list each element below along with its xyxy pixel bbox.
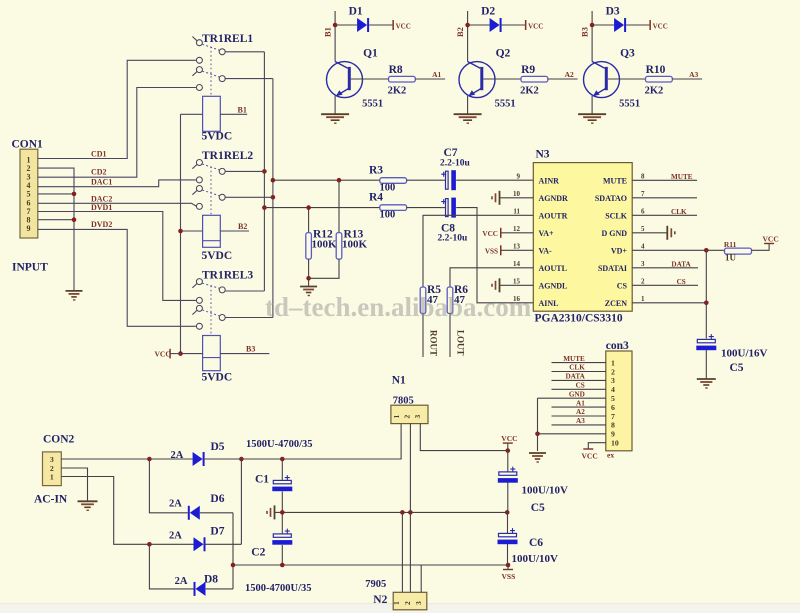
svg-text:DAC1: DAC1	[91, 177, 112, 186]
svg-text:TR1REL2: TR1REL2	[202, 150, 253, 162]
wire DATA net at con3 pin 3	[552, 373, 606, 381]
svg-text:SDATAI: SDATAI	[598, 264, 627, 273]
resistor R13 100K	[309, 180, 368, 278]
wire N2 pin1 riser	[401, 512, 403, 592]
svg-text:2A: 2A	[171, 450, 184, 461]
svg-text:A2: A2	[565, 70, 574, 79]
diode D5 2A	[171, 441, 225, 466]
svg-text:15: 15	[513, 277, 521, 285]
svg-text:B2: B2	[238, 222, 247, 231]
svg-text:CLK: CLK	[671, 208, 687, 216]
wire CS net at N3 pin 2	[632, 278, 698, 286]
ground under Q2	[454, 114, 482, 123]
wire AC2: CON2 pin1 to D7	[61, 477, 193, 547]
svg-text:100U/10V: 100U/10V	[512, 553, 559, 565]
svg-text:5VDC: 5VDC	[202, 250, 233, 262]
svg-text:1: 1	[392, 415, 401, 419]
svg-text:A3: A3	[576, 417, 585, 425]
connector CON2 AC-IN	[34, 434, 75, 506]
svg-text:3: 3	[611, 376, 615, 385]
svg-text:Q3: Q3	[620, 48, 635, 60]
regulator N2 7905	[365, 579, 427, 610]
wire N1 pin2 to ground rail and N2	[409, 424, 411, 593]
svg-text:3: 3	[50, 455, 54, 464]
wire TR1REL2 contact 1	[225, 170, 264, 172]
transistor Q3 5551	[584, 48, 641, 114]
svg-text:100: 100	[380, 209, 396, 220]
svg-text:11: 11	[513, 207, 520, 215]
svg-text:5551: 5551	[619, 99, 640, 110]
relay TR1REL2	[181, 150, 254, 262]
power VSS under C6	[502, 565, 516, 581]
wire N3 pin 11 AOUTR to R5	[423, 215, 533, 287]
wire minus bus vertical (D6/D8 anodes)	[231, 513, 236, 589]
wire A3 net at con3 pin 8	[552, 417, 606, 425]
svg-text:ex: ex	[607, 451, 614, 460]
resistor R11 1U	[706, 234, 778, 262]
svg-text:D5: D5	[211, 441, 225, 453]
svg-text:A1: A1	[576, 399, 585, 407]
svg-text:VCC: VCC	[482, 230, 498, 238]
wire CD1: CON1 pin1 to TR1REL1	[38, 60, 196, 158]
svg-text:VCC: VCC	[528, 22, 543, 30]
svg-text:B1: B1	[323, 27, 333, 37]
svg-text:6: 6	[641, 207, 645, 215]
svg-text:Q2: Q2	[496, 48, 511, 60]
node B2 vertical wire	[455, 11, 470, 62]
svg-text:9: 9	[611, 430, 615, 439]
wire VCC feed to relay coils	[178, 114, 183, 356]
ground rail with sideways ground	[267, 505, 510, 519]
svg-text:7: 7	[641, 190, 645, 198]
svg-text:10: 10	[513, 190, 521, 198]
resistor R5 47	[420, 284, 441, 357]
resistor R9 2K2	[483, 64, 577, 97]
svg-text:1: 1	[50, 472, 54, 481]
svg-text:CON2: CON2	[43, 434, 75, 446]
diode D6 2A	[169, 493, 233, 520]
transistor Q1 5551	[327, 48, 384, 114]
svg-text:D GND: D GND	[601, 229, 627, 238]
wire plus rail to N1 pin 1	[205, 424, 402, 462]
svg-text:C7: C7	[444, 147, 458, 159]
power VCC near C5	[501, 434, 517, 451]
svg-text:AOUTL: AOUTL	[539, 264, 567, 273]
capacitor C1	[255, 459, 292, 512]
svg-text:14: 14	[513, 260, 521, 268]
svg-text:AGNDR: AGNDR	[539, 194, 569, 203]
svg-text:MUTE: MUTE	[671, 173, 693, 181]
resistor R8 2K2	[351, 64, 445, 97]
svg-text:B3: B3	[246, 345, 255, 354]
capacitor C8 2.2-10u	[438, 198, 534, 303]
svg-text:5551: 5551	[495, 99, 516, 110]
wire CON1 pin5	[38, 192, 76, 197]
svg-text:PGA2310/CS3310: PGA2310/CS3310	[535, 313, 623, 325]
wire AC1: CON2 pin3 to D5	[61, 457, 192, 462]
svg-text:D2: D2	[481, 6, 495, 18]
ground at N3 pin 10 (AGNDR)	[492, 191, 533, 205]
svg-text:con3: con3	[606, 340, 629, 352]
wire minus rail	[233, 563, 510, 568]
svg-text:DATA: DATA	[671, 260, 691, 268]
svg-text:C2: C2	[251, 547, 265, 559]
wire DAC1: CON1 pin4 to TR1REL2	[38, 177, 196, 186]
svg-text:D3: D3	[606, 6, 620, 18]
svg-text:C1: C1	[255, 473, 269, 485]
wire at N3 pin 7 SDATAO	[632, 197, 697, 199]
resistor R12 100K	[306, 205, 337, 286]
svg-text:9: 9	[27, 224, 31, 233]
ground at N3 pin 15 (AGNDL)	[492, 278, 533, 292]
wire bus B vertical	[271, 79, 276, 318]
svg-text:CS: CS	[677, 278, 686, 286]
diode D7 2A	[169, 526, 241, 552]
svg-text:3: 3	[414, 601, 423, 605]
svg-text:1500-4700U/35: 1500-4700U/35	[245, 583, 312, 594]
wire GND net at con3 pin 5	[538, 390, 606, 398]
wire N2 pin3 to minus rail	[420, 565, 422, 592]
svg-text:7: 7	[611, 412, 615, 421]
svg-text:A2: A2	[576, 408, 585, 416]
svg-text:ROUT: ROUT	[429, 330, 439, 356]
svg-text:9: 9	[517, 172, 521, 180]
svg-text:2.2-10u: 2.2-10u	[438, 233, 469, 243]
svg-text:SCLK: SCLK	[605, 211, 628, 220]
svg-text:AINL: AINL	[539, 299, 559, 308]
svg-text:100K: 100K	[342, 239, 368, 251]
wire AC2 down to D8	[149, 544, 193, 589]
svg-text:13: 13	[513, 242, 521, 250]
svg-text:SDATAO: SDATAO	[595, 194, 627, 203]
wire CD2: CON1 pin3 to TR1REL1	[38, 88, 196, 178]
wire N3 pin 14 AOUTL to R6	[450, 268, 533, 287]
wire bus A vertical	[262, 52, 267, 291]
power VSS at N3 pin 13	[485, 245, 533, 255]
svg-text:12: 12	[513, 225, 521, 233]
svg-text:8: 8	[611, 421, 615, 430]
wire MUTE net at con3 pin 1	[552, 355, 606, 363]
svg-text:1: 1	[611, 358, 615, 367]
ground under Q1	[321, 114, 349, 123]
svg-text:CD2: CD2	[91, 168, 107, 177]
svg-text:2.2-10u: 2.2-10u	[440, 159, 471, 169]
connector CON1	[12, 139, 49, 274]
wire CON1 pin8	[38, 217, 76, 222]
capacitor C6 100U/10V	[498, 512, 559, 565]
wire TR1REL1 contact to bus A	[225, 51, 264, 53]
svg-text:2A: 2A	[169, 498, 182, 509]
wire CON1 pin2 to ground rail	[38, 168, 74, 290]
svg-text:2K2: 2K2	[520, 86, 539, 97]
svg-text:R4: R4	[369, 191, 383, 203]
svg-text:1500U-4700/35: 1500U-4700/35	[246, 439, 313, 450]
wire DVD2: CON1 pin9 to TR1REL3	[38, 220, 196, 326]
op-amp U: IC N3 PGA2310/CS3310	[533, 149, 632, 325]
capacitor C5 100U/10V	[498, 451, 568, 514]
svg-text:N2: N2	[373, 594, 387, 606]
svg-text:N3: N3	[536, 149, 550, 161]
wire VCC output of N1	[420, 424, 510, 453]
svg-text:2: 2	[641, 277, 645, 285]
svg-text:6: 6	[611, 403, 615, 412]
svg-text:4: 4	[611, 385, 615, 394]
svg-text:DVD1: DVD1	[91, 203, 112, 212]
svg-text:GND: GND	[569, 390, 585, 398]
power VCC (relay coils)	[155, 349, 181, 359]
svg-text:B1: B1	[238, 105, 247, 114]
svg-text:AGNDL: AGNDL	[539, 281, 568, 290]
svg-text:Q1: Q1	[363, 48, 378, 60]
svg-text:5551: 5551	[362, 99, 383, 110]
node B1 vertical wire	[323, 11, 338, 62]
connector con3	[606, 340, 632, 460]
svg-text:2: 2	[611, 367, 615, 376]
relay TR1REL1	[181, 33, 254, 143]
svg-text:R9: R9	[521, 64, 535, 76]
svg-text:VCC: VCC	[582, 451, 598, 460]
ground under R12/R13	[300, 287, 317, 296]
wire TR1REL2 contact 2	[225, 196, 273, 198]
svg-text:100U/10V: 100U/10V	[522, 485, 569, 497]
svg-text:2A: 2A	[175, 576, 188, 587]
svg-text:VCC: VCC	[396, 22, 411, 30]
wire CON2 pin2 to ground	[61, 468, 87, 501]
regulator N1 7805	[391, 375, 428, 424]
svg-text:R3: R3	[369, 165, 383, 177]
svg-text:TR1REL3: TR1REL3	[202, 269, 253, 281]
wire TR1REL1 contact to bus B	[225, 78, 273, 80]
svg-text:2K2: 2K2	[388, 86, 407, 97]
svg-text:CS: CS	[576, 382, 585, 390]
capacitor C7 2.2-10u	[440, 147, 533, 190]
wire DATA net at N3 pin 3	[632, 260, 698, 268]
svg-text:A3: A3	[689, 70, 698, 79]
svg-text:5VDC: 5VDC	[202, 371, 233, 383]
svg-text:VA+: VA+	[539, 229, 555, 238]
svg-text:D8: D8	[204, 574, 218, 586]
resistor R3 100	[273, 165, 441, 194]
resistor R10 2K2	[608, 64, 702, 97]
svg-text:B2: B2	[455, 27, 465, 37]
svg-text:5VDC: 5VDC	[202, 131, 233, 143]
svg-text:C6: C6	[529, 537, 543, 549]
svg-text:VA-: VA-	[539, 246, 553, 255]
bottom band	[0, 604, 800, 613]
wire DAC2: CON1 pin6 to TR1REL2	[38, 194, 200, 206]
wire VD+ down to C5	[705, 250, 707, 338]
ground for CON1	[66, 291, 83, 300]
svg-text:5: 5	[641, 225, 645, 233]
wire TR1REL3 contact 1	[225, 290, 264, 292]
diode D1	[335, 6, 411, 33]
resistor R4 100	[264, 191, 440, 220]
ground at N3 pin 5 D GND	[632, 226, 675, 240]
svg-text:D7: D7	[210, 526, 224, 538]
svg-text:VSS: VSS	[485, 247, 498, 255]
diode D2	[468, 6, 544, 33]
svg-text:1: 1	[392, 601, 401, 605]
capacitor C5 100U/16V	[696, 334, 767, 378]
svg-text:N1: N1	[392, 375, 406, 387]
wire MUTE net at N3 pin 8	[632, 173, 697, 181]
ground at CON2	[78, 501, 98, 510]
svg-text:DVD2: DVD2	[91, 220, 112, 229]
svg-text:2A: 2A	[169, 531, 182, 542]
wire A1 net at con3 pin 6	[552, 399, 606, 407]
svg-text:B3: B3	[580, 27, 590, 37]
svg-text:8: 8	[641, 172, 645, 180]
svg-text:AOUTR: AOUTR	[539, 211, 568, 220]
svg-text:CLK: CLK	[569, 364, 585, 372]
svg-text:3: 3	[641, 260, 645, 268]
diode D8 2A	[175, 574, 233, 596]
svg-text:VCC: VCC	[501, 434, 517, 443]
wire CLK net at con3 pin 2	[552, 364, 606, 372]
ground under C5	[697, 379, 716, 388]
svg-text:VCC: VCC	[155, 349, 171, 358]
capacitor C2	[251, 512, 292, 565]
node B3 vertical wire	[580, 11, 595, 62]
svg-text:LOUT: LOUT	[456, 330, 466, 356]
svg-text:CD1: CD1	[91, 149, 107, 158]
svg-text:AINR: AINR	[539, 176, 560, 185]
svg-text:4: 4	[641, 242, 645, 250]
svg-text:TR1REL1: TR1REL1	[202, 33, 253, 45]
wire ZCEN at N3 pin 1	[632, 301, 708, 306]
wire DVD1: CON1 pin7 to TR1REL3	[38, 203, 196, 301]
svg-text:R11: R11	[724, 240, 737, 249]
svg-text:2: 2	[403, 601, 412, 605]
svg-text:1U: 1U	[725, 253, 737, 263]
svg-text:3: 3	[413, 415, 422, 419]
resistor R6 47	[447, 284, 468, 357]
svg-text:1: 1	[641, 295, 645, 303]
svg-text:VCC: VCC	[763, 234, 779, 243]
wire TR1REL3 contact 2	[225, 317, 273, 319]
svg-text:MUTE: MUTE	[563, 355, 585, 363]
diode D3	[592, 6, 668, 33]
svg-text:td–tech.en.alibaba.com: td–tech.en.alibaba.com	[265, 292, 532, 322]
ground under Q3	[578, 114, 606, 123]
transistor Q2 5551	[459, 48, 516, 114]
svg-text:CS: CS	[617, 281, 628, 290]
wire con3 pin 9 to ground	[535, 432, 606, 437]
svg-text:C5: C5	[730, 362, 744, 374]
wire con3 GND vertical	[537, 398, 539, 451]
wire AC1 down to D6	[149, 459, 187, 513]
svg-text:100U/16V: 100U/16V	[721, 348, 768, 360]
svg-text:VD+: VD+	[611, 246, 628, 255]
svg-text:2K2: 2K2	[645, 86, 664, 97]
wire plus bus: D5/D7 cathodes	[239, 457, 244, 545]
svg-text:AC-IN: AC-IN	[34, 494, 68, 506]
power VCC at N3 pin 12	[482, 228, 533, 238]
relay TR1REL3	[181, 269, 270, 383]
wire CLK net at N3 pin 6	[632, 208, 697, 216]
svg-text:VSS: VSS	[502, 572, 516, 581]
svg-text:R10: R10	[646, 64, 666, 76]
wire CS net at con3 pin 4	[552, 382, 606, 390]
svg-text:VCC: VCC	[653, 22, 668, 30]
svg-text:100K: 100K	[312, 239, 338, 251]
svg-text:5: 5	[611, 394, 615, 403]
svg-text:D1: D1	[349, 6, 363, 18]
svg-text:A1: A1	[432, 70, 441, 79]
power VCC at con3 pin 10	[582, 443, 606, 461]
svg-text:10: 10	[611, 439, 619, 448]
svg-text:2: 2	[402, 415, 411, 419]
svg-text:INPUT: INPUT	[12, 262, 48, 274]
wire A2 net at con3 pin 7	[552, 408, 606, 416]
svg-text:DATA: DATA	[565, 373, 585, 381]
svg-text:D6: D6	[210, 493, 224, 505]
svg-text:R8: R8	[389, 64, 403, 76]
svg-text:7905: 7905	[365, 579, 386, 590]
wire VD+ net at N3 pin 4	[632, 248, 708, 253]
svg-text:C5: C5	[531, 502, 545, 514]
svg-text:MUTE: MUTE	[603, 176, 627, 185]
ground for con3	[529, 453, 546, 462]
svg-text:ZCEN: ZCEN	[605, 299, 627, 308]
